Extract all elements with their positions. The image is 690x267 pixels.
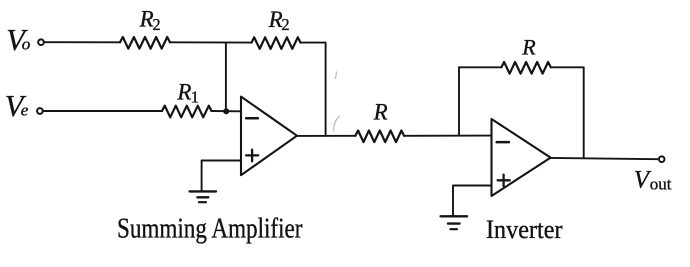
op-amp U2 (492, 119, 551, 196)
resistor R1 (162, 106, 212, 118)
U1 minus sign (246, 117, 258, 120)
resistor R2 (input from Vo) (120, 37, 170, 49)
wire feedback top left (459, 66, 501, 68)
U1 plus sign (246, 154, 258, 156)
wire U1 + input to ground (202, 161, 241, 192)
svg-text:R: R (521, 35, 536, 60)
wire feedback top right and right vertical (551, 67, 584, 158)
svg-text:R: R (268, 7, 283, 32)
wire Vo to R2 (44, 41, 120, 43)
ground G2 (441, 215, 467, 217)
wire Ve to R1 (43, 110, 162, 112)
ground G1 (190, 190, 216, 192)
svg-text:1: 1 (191, 87, 199, 106)
scan artifact marks (334, 72, 340, 132)
resistor R2 (feedback) (252, 37, 301, 49)
svg-text:2: 2 (281, 15, 289, 34)
wire node A vertical to node B (225, 43, 227, 112)
wire R2 to node A / feedback R2 (170, 41, 252, 43)
wire U1 output to series R (297, 135, 355, 137)
svg-text:R: R (373, 99, 388, 124)
svg-text:2: 2 (152, 15, 160, 34)
U2 plus sign (498, 179, 510, 181)
svg-text:e: e (21, 101, 29, 120)
wire U2 output to Vout (551, 158, 659, 159)
svg-text:R: R (139, 7, 154, 32)
U2 minus sign (497, 141, 509, 144)
wire R1 to op-amp U1 inverting input (212, 110, 241, 112)
op-amp U1 (241, 97, 297, 176)
terminal Vout (659, 156, 665, 162)
wire U2 feedback left vertical (458, 67, 460, 135)
svg-text:Summing Amplifier: Summing Amplifier (117, 214, 303, 245)
resistor R (series) (355, 131, 404, 143)
svg-text:o: o (22, 34, 31, 53)
terminal Vo (38, 39, 44, 45)
wire U2 + input to ground (453, 186, 492, 216)
terminal Ve (37, 108, 43, 114)
resistor R (inverter feedback) (501, 62, 550, 74)
wire feedback R2 to corner (301, 43, 326, 136)
svg-text:R: R (176, 79, 191, 104)
node B junction dot (223, 108, 229, 114)
wire series R to op-amp U2 inverting input (404, 135, 491, 137)
svg-text:Inverter: Inverter (486, 215, 563, 244)
svg-text:out: out (650, 175, 672, 194)
